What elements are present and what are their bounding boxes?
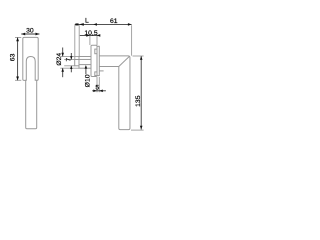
svg-text:5: 5 xyxy=(95,85,99,92)
handle lever, side view (horizontal arm, bend, vertical bar 135) xyxy=(99,56,130,130)
rosette cover cap, side view xyxy=(91,45,97,76)
rosette 30x63, front view xyxy=(23,37,38,80)
dimension 63 (rosette height) line, arrows, label xyxy=(15,37,21,39)
svg-text:Ø24: Ø24 xyxy=(56,53,63,66)
dimension 5 (plate thickness) line, arrows, extensions xyxy=(96,77,98,92)
screw boss bottom xyxy=(95,72,97,76)
hub bottom line xyxy=(99,70,103,72)
svg-text:61: 61 xyxy=(110,18,118,25)
screw boss top xyxy=(95,49,97,54)
mitre edge of bend xyxy=(119,57,130,67)
extension lines for L/61 xyxy=(74,25,76,59)
dimension 10,5 line, arrows, extensions xyxy=(80,34,100,36)
handle lever with neck, front view xyxy=(26,57,37,129)
dimension Ø24 extension lines (collar top/bottom extended left) xyxy=(60,55,79,57)
dimension 135 line, arrows, extensions xyxy=(133,55,144,57)
svg-text:Ø10: Ø10 xyxy=(84,74,91,87)
rosette base plate (5mm), side view xyxy=(97,46,99,75)
svg-text:10,5: 10,5 xyxy=(84,30,97,37)
neck collar Ø24, side view xyxy=(79,57,91,69)
neck Ø10 edges through collar xyxy=(79,58,91,60)
svg-text:L: L xyxy=(85,18,89,25)
dimension 7 line, arrows xyxy=(70,53,72,60)
spindle square 7mm, side view xyxy=(75,60,79,66)
label Ø10 with leader arrow xyxy=(85,66,87,74)
dimension L / 61 shared line with arrows xyxy=(75,23,132,25)
svg-text:135: 135 xyxy=(135,95,142,107)
dimension Ø24 line, arrows xyxy=(62,48,64,57)
svg-text:30: 30 xyxy=(26,28,34,35)
svg-text:7: 7 xyxy=(66,57,73,61)
dimension 30 (rosette width) line, arrows, label xyxy=(21,33,39,35)
dimension 7 extension lines (spindle top/bottom extended left) xyxy=(64,59,75,61)
technical drawing: window handle, front view and side view xyxy=(0,0,150,150)
svg-text:63: 63 xyxy=(9,53,16,61)
